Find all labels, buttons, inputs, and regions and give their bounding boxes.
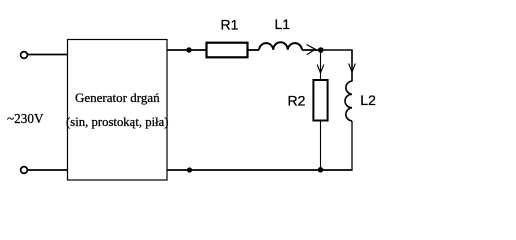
wire: node A to top-right corner (321, 50, 352, 82)
resistor R1 (207, 43, 248, 58)
current arrow into R2 (317, 65, 324, 74)
inductor L2 (345, 81, 352, 121)
svg-text:(sin, prostokąt, piła): (sin, prostokąt, piła) (66, 114, 169, 129)
svg-text:Generator drgań: Generator drgań (75, 90, 160, 105)
junction dot: bottom tap (187, 167, 192, 172)
junction dot: top tap (186, 47, 191, 52)
wire: bottom rail (167, 169, 353, 171)
svg-text:R1: R1 (221, 17, 239, 33)
terminal: bottom input (21, 167, 28, 174)
node B junction dot (318, 167, 324, 173)
svg-text:~230V: ~230V (7, 112, 44, 127)
svg-text:L1: L1 (275, 16, 291, 32)
wire: L2 to bottom rail (351, 121, 353, 170)
current arrow into node A (307, 45, 316, 55)
wire: top terminal to generator (28, 54, 68, 56)
wire: R2 to bottom rail (320, 121, 322, 171)
current arrow into L2 (349, 64, 356, 73)
wire: node A down to R2 (320, 50, 322, 80)
wire: generator to R1 (167, 49, 206, 51)
svg-text:L2: L2 (360, 92, 376, 108)
node A junction dot (318, 47, 324, 53)
generator box U1 (68, 40, 168, 181)
wire: L1 to node A (302, 49, 321, 51)
terminal: top input (21, 52, 28, 59)
wire: bottom terminal to generator (28, 169, 68, 171)
inductor L1 (259, 42, 302, 50)
wire: R1 to L1 (248, 49, 260, 51)
svg-text:R2: R2 (288, 92, 306, 108)
resistor R2 (313, 80, 327, 121)
